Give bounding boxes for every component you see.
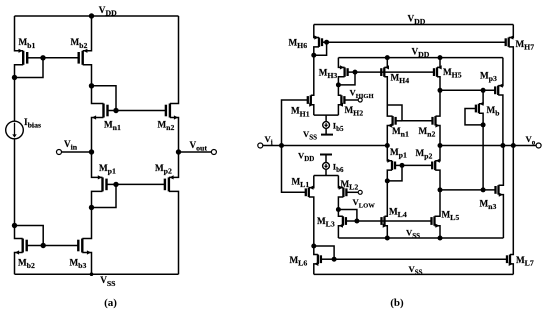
caption (b) (390, 297, 404, 309)
junction Mb chain on Mn3 gate bus (481, 187, 486, 192)
node Vout (176, 149, 181, 154)
node Mp2 drain / Mn3 gate bus (438, 187, 443, 192)
net label VSS (Ib5) (303, 129, 317, 142)
wire gate bus Mp1-Mp2 (b) (402, 164, 432, 166)
node Mp1 drain (b) (385, 178, 390, 183)
transistor Mn3 (496, 146, 504, 239)
node gate Mb2/Mb3 (41, 243, 46, 248)
node gate Mp1/Mp2 (113, 182, 118, 187)
junction MH5 on rail2 (438, 55, 443, 60)
junction Mb on Mp3 gate bus (481, 88, 486, 93)
terminal VHIGH (358, 98, 362, 102)
label Mn3 (480, 199, 497, 212)
wire VSS rail (a) (15, 273, 179, 275)
transistor ML5 (432, 190, 441, 238)
transistor MH4 (381, 58, 389, 105)
transistor ML4 (382, 181, 388, 238)
transistor Mp2 (b) (432, 146, 440, 190)
node Mb drain/gate (481, 122, 486, 127)
net label VSS inner (406, 228, 420, 241)
wire Mb1 gate-drain loop (15, 58, 44, 78)
wire tail to Ib5 (325, 115, 327, 122)
node MH6 drain (311, 53, 316, 58)
node Vi (279, 143, 284, 148)
terminal Vo (536, 143, 541, 148)
net label VSS (a) (100, 275, 115, 288)
label Mp2 (b) (416, 148, 433, 161)
node Mb2 source (89, 83, 94, 88)
current source Ibias (6, 121, 24, 139)
wire Mp3 gate bus (440, 89, 495, 91)
label ML1 (292, 177, 310, 190)
wire Mb bias chain down (482, 125, 484, 190)
wire gate bus ML3-ML4-ML5 (357, 220, 432, 222)
net label VDD (b) inner (412, 47, 430, 60)
wire ML1-ML2 tail (314, 175, 339, 177)
wire MH3 gate-drain loop (338, 72, 355, 85)
label MH4 (391, 73, 410, 86)
wire VDD to Ib6 (325, 155, 327, 163)
terminal Vout (211, 150, 216, 155)
wire Vo line (440, 145, 536, 147)
transistor MH2 (338, 85, 358, 115)
supply symbol VSS (Ib5) (321, 134, 333, 136)
wire MH4 drain to Mn1 gate (387, 105, 402, 121)
wire gate bus MH6-MH7 (327, 41, 506, 43)
node Mn1-Mp1 junction (385, 143, 390, 148)
wire Vout (179, 151, 212, 153)
wire VDD rail 2 (b) (338, 57, 503, 59)
wire left rail upper (14, 78, 16, 122)
node gate MH6 (324, 40, 329, 45)
label MH6 (289, 38, 308, 51)
terminal VLOW (358, 190, 362, 194)
transistor Mn1 (b) (387, 105, 402, 146)
label Mb (487, 105, 501, 118)
wire Mb2 source to Mn1 gate (92, 86, 117, 111)
wire Ib6 to tail (325, 169, 327, 175)
node gate Mb1/Mb2 (40, 55, 45, 60)
node gate ML3 (354, 219, 359, 224)
transistor Mp3 (495, 58, 503, 146)
label ML4 (389, 207, 407, 220)
transistor Mb1 (15, 16, 44, 78)
net label VLOW (353, 197, 376, 210)
label ML5 (442, 210, 460, 223)
label MH7 (516, 39, 535, 52)
wire MH1 gate from Vi (282, 100, 308, 192)
label Ib6 (333, 162, 344, 175)
wire Vi line (263, 145, 388, 147)
node MH5 drain / Mp3 gate bus (438, 88, 443, 93)
wire gate bus Mb2-Mb3 (43, 245, 78, 247)
node Mp3 drain on Vo (500, 143, 505, 148)
label Mb2 bottom (18, 258, 35, 271)
label Mb3 (70, 258, 87, 271)
label MH2 (345, 105, 364, 118)
wire left rail lower (14, 139, 16, 226)
label ML6 (290, 255, 308, 268)
label Mp2 (155, 163, 172, 176)
terminal Vin (57, 150, 62, 155)
svg-text:(a): (a) (104, 297, 117, 309)
net label VDD (b) top (408, 13, 426, 26)
net label VDD (Ib6) (298, 151, 314, 164)
wire VDD rail (a) (15, 15, 179, 17)
label Mb2 top (71, 37, 88, 50)
terminal Vi (258, 143, 263, 148)
junction ML5 on inner rail (438, 236, 443, 241)
svg-text:(b): (b) (390, 297, 404, 309)
wire Vin (61, 151, 91, 153)
net label VSS outer (409, 264, 423, 277)
transistor ML6 (314, 246, 334, 274)
net label VDD (a) (99, 5, 117, 18)
label Ib5 (333, 121, 344, 134)
wire outer VSS rail (314, 273, 514, 275)
caption (a) (104, 297, 117, 309)
label ML3 (317, 216, 335, 229)
label Mn2 (158, 120, 175, 133)
net label Vin (64, 139, 78, 152)
node ML2 source / ML3 drain (336, 207, 341, 212)
label MH1 (291, 106, 310, 119)
wire gate bus Mb1-Mb2 (43, 57, 79, 59)
label Mn1 (b) (392, 126, 409, 139)
node Mp1 drain (89, 205, 94, 210)
current source Ib6 (323, 163, 330, 170)
transistor MH5 (434, 58, 442, 91)
transistor ML7 (507, 146, 513, 275)
label MH3 (319, 67, 338, 80)
wire Mb gate loop (465, 109, 483, 125)
transistor MH6 (314, 25, 327, 56)
label Mp3 (480, 71, 497, 84)
transistor Mn1 (92, 86, 117, 152)
transistor Mb3 (78, 208, 91, 275)
wire MH6 gate-drain loop (314, 42, 327, 55)
transistor Mp1 (92, 152, 117, 208)
wire gate bus Mn1-Mn2 (116, 110, 166, 112)
node gate Mn1/Mn2 (113, 108, 118, 113)
wire gate bus Mp1-Mp2 (116, 183, 165, 185)
supply symbol VDD (Ib6) (320, 154, 332, 156)
wire Mn3 gate bus (440, 189, 496, 191)
node left rail bias tap (12, 223, 17, 228)
current source Ib5 (323, 122, 330, 129)
net label Vo (526, 134, 536, 147)
transistor Mp2 (165, 152, 179, 274)
net label VHIGH (350, 87, 375, 100)
transistor MH3 (338, 58, 355, 85)
transistor Mb (476, 90, 484, 125)
transistor Mb2 top (79, 16, 92, 86)
net label Vi (265, 134, 273, 147)
junction ML4 on inner rail (385, 236, 390, 241)
node Mn2-Mp2 junction (438, 143, 443, 148)
label Mp1 (99, 163, 116, 176)
transistor Mp1 (b) (387, 146, 402, 181)
wire gate bus ML6-ML7 (334, 258, 507, 260)
node gate Mp1 (b) (400, 163, 405, 168)
wire gate bus Mn1-Mn2 (b) (402, 120, 433, 122)
wire inner VSS rail (338, 237, 503, 239)
transistor Mn2 (b) (433, 90, 441, 145)
label Mn2 (b) (419, 126, 436, 139)
wire Mp1 gate-drain loop (b) (387, 165, 402, 181)
transistor ML1 (306, 176, 314, 247)
transistor MH1 (308, 55, 314, 115)
junction MH4 on rail2 (385, 55, 390, 60)
transistor ML2 (338, 176, 358, 210)
wire Mp1 gate-drain loop (92, 184, 117, 207)
junction on VDD rail (a) (89, 13, 94, 18)
wire MH1-MH2 tail (314, 114, 339, 116)
node Mb1 drain (12, 75, 17, 80)
transistor MH7 (506, 25, 514, 146)
label Mp1 (b) (390, 147, 407, 160)
wire ML6 gate-drain loop (314, 246, 334, 259)
node Vin (89, 149, 94, 154)
wire VDD rail (b) (314, 24, 514, 26)
node gate MH3 (353, 70, 358, 75)
label Mn1 (104, 120, 121, 133)
wire Ib5 to VSS (325, 128, 327, 134)
transistor ML3 (338, 210, 357, 239)
node ML1 drain / ML6 gate (311, 244, 316, 249)
label MH5 (443, 67, 462, 80)
label Mb1 (19, 37, 36, 50)
label ML2 (341, 179, 359, 192)
wire ML3 gate-drain loop (338, 210, 357, 222)
transistor Mb2 bottom (15, 226, 44, 275)
label Ibias (24, 117, 41, 130)
node MH3 drain (336, 82, 341, 87)
wire gate bus MH3-MH4-MH5 (355, 71, 433, 73)
node gate ML6 (332, 257, 337, 262)
label ML7 (516, 255, 534, 268)
junction Mb3 on VSS rail (90, 272, 94, 276)
transistor Mn2 (166, 16, 179, 152)
node MH7 chain on Vo (511, 143, 516, 148)
wire bias tap to Mb2 gate (15, 226, 44, 246)
net label Vout (190, 140, 208, 153)
